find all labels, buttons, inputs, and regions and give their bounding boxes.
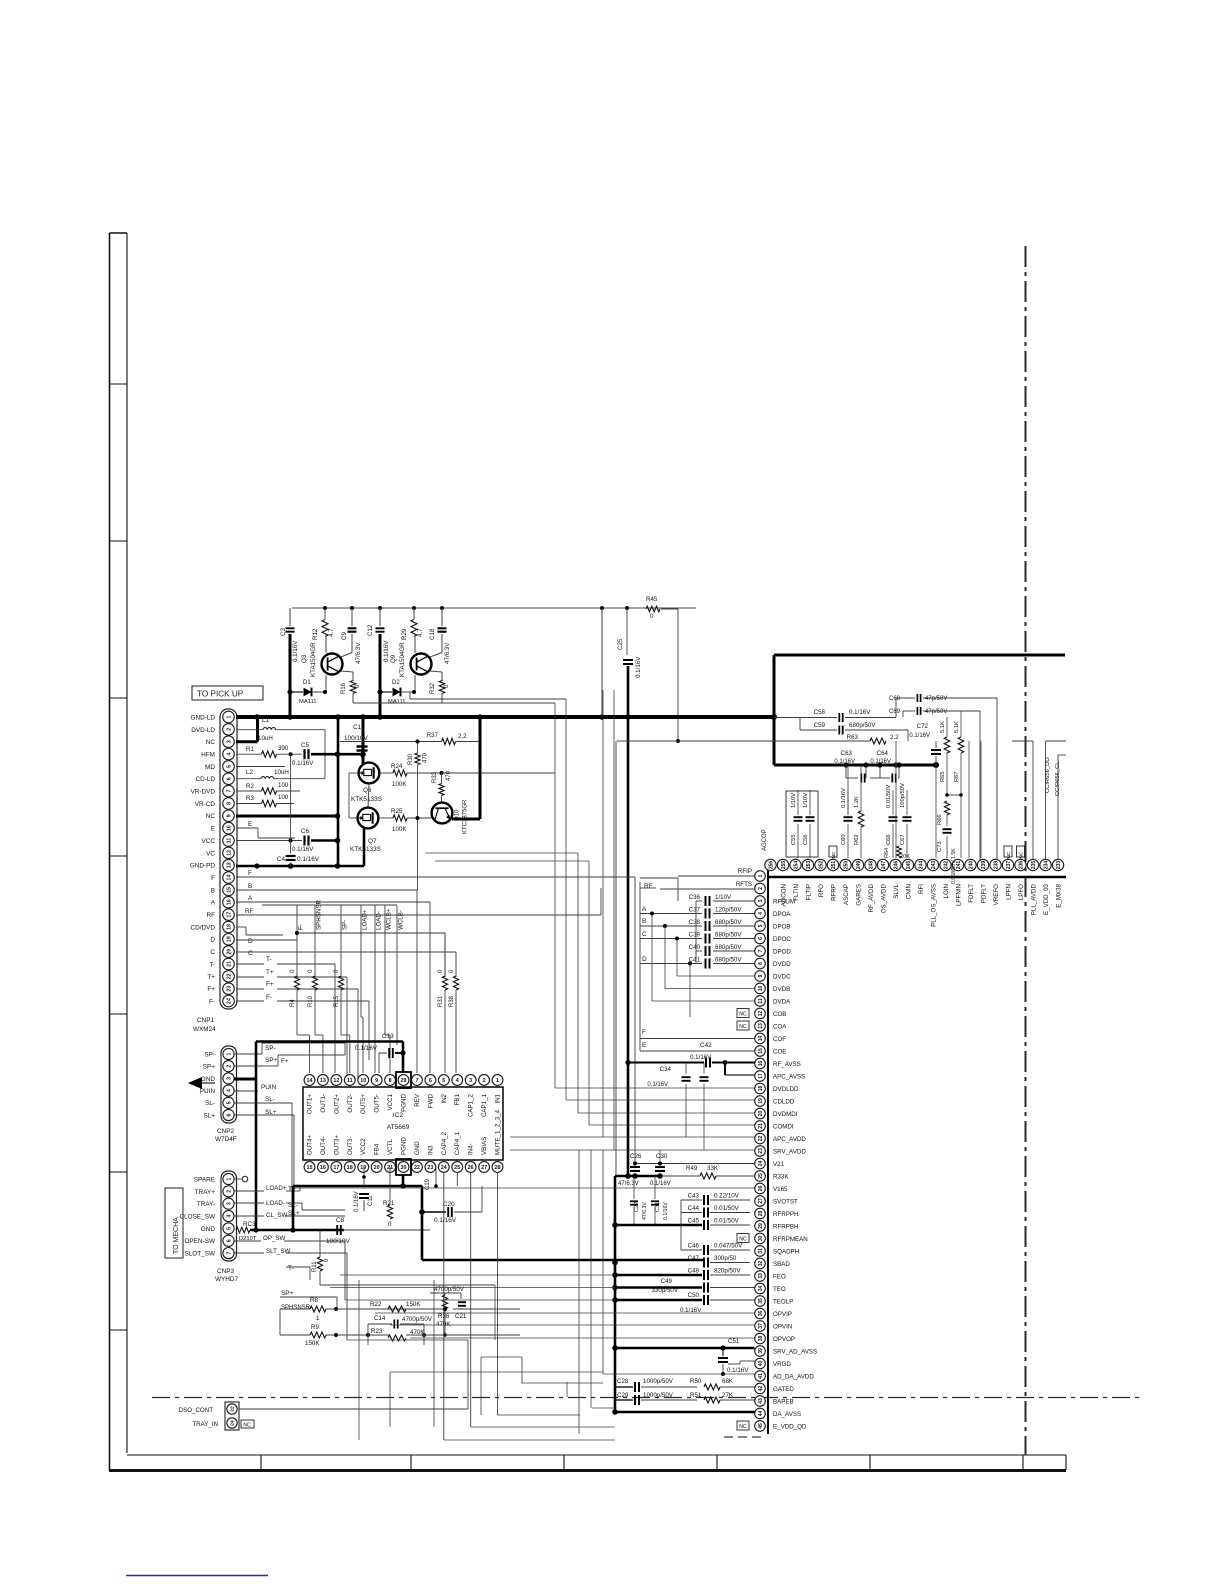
- svg-text:33: 33: [758, 1273, 764, 1279]
- svg-text:28: 28: [758, 1211, 764, 1217]
- svg-text:F: F: [248, 870, 252, 877]
- svg-text:C25: C25: [617, 638, 624, 650]
- svg-text:30: 30: [401, 1165, 407, 1171]
- svg-text:0.22/10V: 0.22/10V: [714, 1193, 740, 1200]
- svg-text:RFRP: RFRP: [830, 884, 837, 901]
- svg-text:3: 3: [758, 899, 764, 902]
- svg-text:WCLB-: WCLB-: [398, 910, 405, 930]
- svg-text:120p/50V: 120p/50V: [715, 907, 742, 914]
- svg-text:0.1/16V: 0.1/16V: [727, 1367, 749, 1374]
- svg-text:31: 31: [758, 1248, 764, 1254]
- svg-text:DVDC: DVDC: [773, 973, 791, 980]
- svg-text:R38: R38: [449, 995, 455, 1007]
- svg-text:SP-: SP-: [265, 1045, 276, 1052]
- svg-text:100/10V: 100/10V: [344, 735, 369, 742]
- svg-text:B: B: [211, 887, 215, 894]
- svg-text:20: 20: [758, 1111, 764, 1117]
- svg-text:2: 2: [226, 728, 232, 731]
- svg-text:RFRPPH: RFRPPH: [773, 1211, 798, 1218]
- svg-text:NC: NC: [739, 1024, 747, 1030]
- svg-text:E: E: [642, 1042, 646, 1049]
- svg-text:36: 36: [758, 1311, 764, 1317]
- svg-text:C39: C39: [689, 932, 701, 939]
- svg-text:0.1/16V: 0.1/16V: [849, 709, 871, 716]
- svg-text:SVOTST: SVOTST: [773, 1198, 798, 1205]
- svg-text:VC: VC: [206, 850, 215, 857]
- svg-text:COE: COE: [773, 1048, 786, 1055]
- svg-text:LOAD-: LOAD-: [376, 911, 383, 930]
- svg-text:0.1/16V: 0.1/16V: [690, 1054, 712, 1061]
- svg-text:47/6.3V: 47/6.3V: [355, 642, 362, 664]
- svg-text:100: 100: [278, 782, 289, 789]
- svg-text:R31: R31: [438, 995, 444, 1007]
- svg-text:OUT3+: OUT3+: [333, 1134, 340, 1155]
- svg-text:3: 3: [469, 1078, 472, 1084]
- svg-text:R62: R62: [854, 834, 860, 845]
- svg-text:R2: R2: [246, 783, 254, 790]
- svg-text:W7D4F: W7D4F: [215, 1136, 237, 1143]
- svg-text:WCLB+: WCLB+: [386, 908, 393, 930]
- svg-text:MUTE_1_2_3_4: MUTE_1_2_3_4: [495, 1109, 502, 1155]
- svg-text:COA: COA: [773, 1023, 787, 1030]
- svg-text:LOAD+: LOAD+: [362, 909, 369, 930]
- svg-text:238: 238: [993, 861, 999, 870]
- svg-text:4.7: 4.7: [328, 628, 335, 637]
- svg-text:10: 10: [226, 825, 232, 831]
- svg-text:6: 6: [429, 1078, 432, 1084]
- svg-text:SP+: SP+: [281, 1290, 294, 1297]
- svg-text:MA111: MA111: [388, 699, 406, 705]
- svg-text:IC2: IC2: [393, 1112, 404, 1119]
- svg-text:25: 25: [454, 1165, 460, 1171]
- svg-text:LOAD+: LOAD+: [266, 1185, 287, 1192]
- svg-text:WYHD7: WYHD7: [215, 1276, 239, 1283]
- svg-text:OPVIP: OPVIP: [773, 1311, 792, 1318]
- svg-text:CNP1: CNP1: [197, 1017, 214, 1024]
- svg-text:820p/50V: 820p/50V: [714, 1268, 741, 1275]
- svg-text:0.1/16V: 0.1/16V: [292, 640, 299, 662]
- svg-text:C51: C51: [728, 1338, 740, 1345]
- svg-text:R10: R10: [308, 995, 314, 1007]
- svg-text:29: 29: [758, 1223, 764, 1229]
- svg-text:235: 235: [1031, 861, 1037, 870]
- svg-text:4700p/50V: 4700p/50V: [434, 1286, 465, 1293]
- svg-text:2: 2: [226, 1065, 232, 1068]
- svg-text:AD_DA_AVDD: AD_DA_AVDD: [773, 1373, 814, 1380]
- svg-text:BAPEB: BAPEB: [773, 1398, 794, 1405]
- svg-text:R23: R23: [371, 1328, 383, 1335]
- svg-text:8: 8: [389, 1078, 392, 1084]
- svg-text:R32: R32: [430, 682, 436, 694]
- svg-text:C27: C27: [634, 1202, 640, 1212]
- svg-text:470: 470: [446, 770, 452, 781]
- svg-text:NC: NC: [831, 851, 837, 858]
- svg-text:LPFNIN: LPFNIN: [955, 884, 962, 906]
- svg-text:GND-PD: GND-PD: [190, 863, 216, 870]
- svg-text:252: 252: [818, 861, 824, 870]
- svg-text:2.2: 2.2: [890, 734, 899, 741]
- svg-text:44: 44: [758, 1411, 764, 1417]
- svg-text:1: 1: [496, 1078, 499, 1084]
- svg-text:RFTS: RFTS: [736, 881, 752, 888]
- svg-text:C37: C37: [689, 907, 701, 914]
- svg-text:243: 243: [931, 861, 937, 870]
- svg-text:VCC1: VCC1: [387, 1093, 394, 1110]
- svg-text:470K: 470K: [436, 1321, 451, 1328]
- svg-text:250: 250: [843, 861, 849, 870]
- svg-text:OPVOP: OPVOP: [773, 1336, 795, 1343]
- svg-text:OUT3-: OUT3-: [347, 1136, 354, 1155]
- svg-text:100p/50V: 100p/50V: [900, 783, 906, 808]
- svg-text:T+: T+: [266, 969, 274, 976]
- svg-text:OP_SW: OP_SW: [263, 1235, 286, 1242]
- svg-text:21: 21: [758, 1123, 764, 1129]
- svg-text:PGND: PGND: [401, 1137, 408, 1155]
- svg-text:16: 16: [226, 899, 232, 905]
- svg-text:5.1K: 5.1K: [954, 721, 960, 733]
- svg-text:E: E: [211, 826, 215, 833]
- svg-text:OPEN-SW: OPEN-SW: [184, 1238, 216, 1245]
- svg-text:5: 5: [226, 1101, 232, 1104]
- svg-text:F+: F+: [266, 981, 274, 988]
- svg-text:GND-LD: GND-LD: [191, 714, 216, 721]
- svg-text:7: 7: [758, 949, 764, 952]
- svg-text:DVDD: DVDD: [773, 961, 791, 968]
- svg-text:680p/50V: 680p/50V: [715, 919, 742, 926]
- svg-text:C40: C40: [689, 944, 701, 951]
- svg-text:18: 18: [347, 1165, 353, 1171]
- svg-text:256: 256: [768, 861, 774, 870]
- svg-text:0.01/50V: 0.01/50V: [714, 1205, 740, 1212]
- svg-text:C44: C44: [688, 1205, 700, 1212]
- svg-text:12: 12: [333, 1078, 339, 1084]
- svg-text:0.047/50V: 0.047/50V: [714, 1243, 743, 1250]
- svg-text:390: 390: [278, 745, 289, 752]
- svg-text:22: 22: [226, 973, 232, 979]
- svg-text:240: 240: [968, 861, 974, 870]
- svg-text:FEO: FEO: [773, 1273, 786, 1280]
- svg-text:233: 233: [1056, 861, 1062, 870]
- svg-text:RF_AVSS: RF_AVSS: [773, 1061, 801, 1068]
- svg-text:TRAY+: TRAY+: [195, 1189, 216, 1196]
- svg-text:13: 13: [226, 862, 232, 868]
- svg-text:L1: L1: [262, 717, 269, 724]
- svg-text:27: 27: [758, 1198, 764, 1204]
- svg-text:TO MECHA: TO MECHA: [173, 1217, 180, 1254]
- svg-text:AGCOP: AGCOP: [762, 829, 768, 851]
- svg-text:OS_AVDD: OS_AVDD: [880, 883, 887, 913]
- svg-text:E_VDD_QD: E_VDD_QD: [773, 1423, 807, 1430]
- svg-text:A: A: [248, 895, 253, 902]
- svg-text:CNP2: CNP2: [217, 1128, 234, 1135]
- svg-text:C69: C69: [889, 709, 901, 715]
- svg-text:R50: R50: [690, 1378, 702, 1385]
- svg-text:C5: C5: [301, 742, 309, 749]
- svg-text:1000p/50V: 1000p/50V: [643, 1392, 674, 1399]
- svg-text:29: 29: [401, 1078, 407, 1084]
- svg-text:4: 4: [758, 912, 764, 915]
- svg-text:R63: R63: [847, 734, 859, 741]
- svg-text:SPARE: SPARE: [194, 1176, 215, 1183]
- svg-text:R11: R11: [312, 1261, 318, 1272]
- svg-text:1/10V: 1/10V: [715, 894, 732, 901]
- svg-text:CLOSE_SW: CLOSE_SW: [179, 1213, 215, 1220]
- svg-text:KTK5133S: KTK5133S: [350, 846, 381, 853]
- svg-text:18: 18: [758, 1086, 764, 1092]
- svg-text:MD: MD: [205, 764, 215, 771]
- svg-text:23: 23: [427, 1165, 433, 1171]
- svg-text:OUT2+: OUT2+: [333, 1094, 340, 1115]
- svg-text:239: 239: [981, 861, 987, 870]
- svg-text:26: 26: [468, 1165, 474, 1171]
- svg-text:C31: C31: [655, 1202, 661, 1212]
- svg-text:21: 21: [226, 961, 232, 967]
- svg-text:RF: RF: [644, 883, 653, 890]
- svg-text:Q9: Q9: [390, 654, 397, 663]
- svg-text:CD/DVD: CD/DVD: [191, 924, 216, 931]
- svg-text:C58: C58: [814, 709, 826, 716]
- svg-text:DVDA: DVDA: [773, 998, 791, 1005]
- svg-text:254: 254: [793, 861, 799, 870]
- svg-text:19: 19: [360, 1165, 366, 1171]
- svg-text:C10: C10: [353, 724, 365, 731]
- svg-text:GARES: GARES: [855, 884, 862, 906]
- svg-text:PDFLT: PDFLT: [980, 884, 987, 903]
- svg-text:C67: C67: [900, 834, 906, 845]
- svg-text:SP+: SP+: [203, 1064, 216, 1071]
- svg-text:26: 26: [758, 1186, 764, 1192]
- svg-text:C63: C63: [841, 750, 853, 757]
- svg-text:0.1/16V: 0.1/16V: [355, 1045, 378, 1052]
- svg-text:20K: 20K: [900, 854, 910, 860]
- svg-text:PLL_AVDD: PLL_AVDD: [1030, 883, 1037, 915]
- svg-text:10uH: 10uH: [258, 735, 273, 742]
- svg-text:CAP4_2: CAP4_2: [441, 1131, 448, 1155]
- svg-text:TRAY-: TRAY-: [197, 1201, 215, 1208]
- svg-text:PUIN: PUIN: [261, 1084, 277, 1091]
- svg-text:22: 22: [414, 1165, 420, 1171]
- svg-text:OUT4+: OUT4+: [307, 1134, 314, 1155]
- svg-text:0.1/16V: 0.1/16V: [434, 1217, 457, 1224]
- svg-text:40: 40: [758, 1361, 764, 1367]
- svg-text:0.1/16V: 0.1/16V: [292, 846, 314, 853]
- svg-text:DPOC: DPOC: [773, 936, 791, 943]
- svg-text:R22: R22: [370, 1301, 382, 1308]
- svg-text:E: E: [248, 821, 252, 828]
- svg-text:0.1/16V: 0.1/16V: [650, 1181, 671, 1187]
- svg-text:VCC2: VCC2: [360, 1138, 367, 1155]
- svg-text:E_MX38: E_MX38: [1055, 883, 1062, 907]
- svg-text:KTA1504GR: KTA1504GR: [399, 642, 406, 677]
- svg-text:VBIAS: VBIAS: [481, 1137, 488, 1155]
- svg-text:R12: R12: [312, 628, 319, 640]
- svg-text:0.1/16V: 0.1/16V: [635, 656, 642, 678]
- svg-text:SBAD: SBAD: [773, 1261, 790, 1268]
- svg-text:NC: NC: [1006, 851, 1012, 858]
- svg-text:247: 247: [881, 861, 887, 870]
- svg-text:300p/50: 300p/50: [714, 1255, 737, 1262]
- svg-text:C29: C29: [617, 1392, 629, 1399]
- svg-text:CNP3: CNP3: [217, 1268, 234, 1275]
- svg-text:OUT5+: OUT5+: [360, 1094, 367, 1115]
- svg-text:16: 16: [320, 1165, 326, 1171]
- svg-text:COMDI: COMDI: [773, 1123, 794, 1130]
- svg-text:0: 0: [650, 613, 654, 620]
- svg-text:0.068/50V 1.5K: 0.068/50V 1.5K: [951, 848, 957, 884]
- svg-text:OUT1+: OUT1+: [307, 1094, 314, 1115]
- svg-text:5: 5: [226, 765, 232, 768]
- svg-text:RF_AVDD: RF_AVDD: [868, 883, 875, 912]
- svg-text:CAP1_1: CAP1_1: [481, 1093, 488, 1117]
- svg-text:1000p/50V: 1000p/50V: [643, 1378, 674, 1385]
- svg-text:TEO: TEO: [773, 1286, 786, 1293]
- svg-text:CL_SW: CL_SW: [266, 1212, 287, 1219]
- svg-text:SL+: SL+: [203, 1112, 215, 1119]
- svg-text:RFIP: RFIP: [738, 868, 752, 875]
- svg-text:6: 6: [226, 1113, 232, 1116]
- svg-text:F: F: [211, 875, 215, 882]
- svg-text:FLTIP: FLTIP: [805, 884, 812, 900]
- svg-text:5: 5: [758, 924, 764, 927]
- svg-text:CNIN: CNIN: [905, 884, 912, 899]
- svg-text:1: 1: [226, 715, 232, 718]
- svg-text:IN3: IN3: [427, 1145, 434, 1155]
- svg-text:DPOA: DPOA: [773, 911, 791, 918]
- svg-text:0.1/16V: 0.1/16V: [383, 640, 390, 662]
- svg-text:C11: C11: [368, 1195, 374, 1206]
- svg-text:47/6.3V: 47/6.3V: [642, 1202, 648, 1220]
- svg-text:C36: C36: [689, 894, 701, 901]
- svg-text:VREFO: VREFO: [993, 884, 1000, 906]
- svg-text:C72: C72: [917, 723, 929, 730]
- svg-text:47p/50V: 47p/50V: [925, 709, 947, 715]
- svg-text:12: 12: [226, 850, 232, 856]
- svg-text:22: 22: [230, 1406, 235, 1412]
- svg-text:C42: C42: [700, 1042, 712, 1049]
- svg-text:32: 32: [758, 1261, 764, 1267]
- svg-text:234: 234: [1043, 861, 1049, 870]
- svg-text:C59: C59: [814, 722, 826, 729]
- svg-text:16: 16: [758, 1061, 764, 1067]
- svg-text:0.1/16V: 0.1/16V: [841, 788, 847, 808]
- svg-text:245: 245: [906, 861, 912, 870]
- svg-text:1/10V: 1/10V: [803, 793, 809, 808]
- svg-text:249: 249: [856, 861, 862, 870]
- svg-text:A: A: [642, 906, 647, 913]
- svg-text:IN4-: IN4-: [468, 1143, 475, 1155]
- svg-text:34: 34: [758, 1286, 764, 1292]
- svg-text:24: 24: [758, 1161, 764, 1167]
- svg-text:1: 1: [316, 1315, 320, 1322]
- svg-text:C28: C28: [617, 1378, 629, 1385]
- svg-text:C38: C38: [689, 919, 701, 926]
- svg-text:20: 20: [226, 949, 232, 955]
- svg-text:246: 246: [893, 861, 899, 870]
- svg-text:4: 4: [226, 1214, 232, 1217]
- svg-text:C9: C9: [341, 632, 348, 640]
- svg-text:C43: C43: [688, 1193, 700, 1200]
- svg-text:1/10V: 1/10V: [791, 793, 797, 808]
- svg-text:4: 4: [456, 1078, 459, 1084]
- svg-text:TRAY_IN: TRAY_IN: [192, 1421, 218, 1428]
- svg-text:F+: F+: [207, 986, 215, 993]
- svg-text:GND: GND: [201, 1226, 216, 1233]
- svg-text:FB4: FB4: [374, 1143, 381, 1155]
- svg-text:237: 237: [1006, 861, 1012, 870]
- svg-text:SRV_AVDD: SRV_AVDD: [773, 1148, 806, 1155]
- svg-text:Q6: Q6: [363, 787, 372, 794]
- svg-text:100: 100: [278, 794, 289, 801]
- svg-text:R45: R45: [646, 596, 658, 603]
- svg-text:A: A: [211, 900, 216, 907]
- svg-text:5.1K: 5.1K: [940, 721, 946, 733]
- svg-text:IN1: IN1: [495, 1093, 502, 1103]
- svg-text:FDFLT: FDFLT: [968, 884, 975, 903]
- svg-text:9: 9: [226, 814, 232, 817]
- svg-text:2: 2: [483, 1078, 486, 1084]
- svg-text:OUT4-: OUT4-: [320, 1136, 327, 1155]
- svg-text:3: 3: [226, 740, 232, 743]
- svg-text:PUIN: PUIN: [200, 1088, 216, 1095]
- svg-text:3: 3: [226, 1202, 232, 1205]
- svg-text:11: 11: [758, 998, 764, 1004]
- svg-text:C68: C68: [889, 696, 901, 702]
- svg-text:C34: C34: [660, 1066, 672, 1073]
- svg-text:HFM: HFM: [201, 751, 215, 758]
- svg-text:RFO: RFO: [818, 884, 825, 897]
- svg-text:0.1/16V: 0.1/16V: [647, 1082, 668, 1088]
- svg-text:SP-: SP-: [342, 920, 349, 930]
- svg-text:18: 18: [226, 924, 232, 930]
- svg-text:19: 19: [758, 1098, 764, 1104]
- svg-text:R24: R24: [391, 763, 403, 770]
- svg-text:SLOT_SW: SLOT_SW: [184, 1251, 216, 1258]
- svg-text:DA_AVSS: DA_AVSS: [773, 1411, 801, 1418]
- svg-text:R33K: R33K: [773, 1173, 789, 1180]
- svg-text:RFRPMEAN: RFRPMEAN: [773, 1236, 808, 1243]
- svg-text:FLTIN: FLTIN: [793, 884, 800, 901]
- svg-text:150K: 150K: [406, 1301, 421, 1308]
- svg-text:R49: R49: [686, 1165, 698, 1172]
- svg-text:SLT_SW: SLT_SW: [266, 1248, 290, 1255]
- svg-text:17: 17: [333, 1165, 339, 1171]
- svg-text:ASCAP: ASCAP: [843, 884, 850, 905]
- svg-text:RF: RF: [206, 912, 215, 919]
- svg-text:R8: R8: [310, 1297, 318, 1304]
- svg-text:10: 10: [758, 986, 764, 992]
- svg-text:R9: R9: [311, 1324, 319, 1331]
- svg-text:251: 251: [831, 861, 837, 870]
- svg-text:47p/50V: 47p/50V: [925, 696, 947, 702]
- svg-text:17: 17: [758, 1073, 764, 1079]
- svg-text:LGIN: LGIN: [943, 884, 950, 898]
- svg-text:SRV_AD_AVSS: SRV_AD_AVSS: [773, 1348, 817, 1355]
- svg-text:25: 25: [758, 1173, 764, 1179]
- svg-text:680p/50V: 680p/50V: [849, 722, 876, 729]
- svg-text:CD-LD: CD-LD: [195, 776, 215, 783]
- svg-text:15: 15: [307, 1165, 313, 1171]
- svg-text:Q7: Q7: [368, 838, 377, 845]
- svg-text:COF: COF: [773, 1036, 786, 1043]
- svg-text:C30: C30: [656, 1153, 668, 1160]
- svg-text:VR-CD: VR-CD: [195, 801, 216, 808]
- svg-text:R64: R64: [884, 848, 890, 858]
- svg-text:C45: C45: [688, 1218, 700, 1225]
- svg-text:1: 1: [758, 874, 764, 877]
- svg-text:OUT1-: OUT1-: [320, 1094, 327, 1113]
- svg-text:680p/50V: 680p/50V: [715, 957, 742, 964]
- svg-text:0.1/16V: 0.1/16V: [909, 733, 930, 739]
